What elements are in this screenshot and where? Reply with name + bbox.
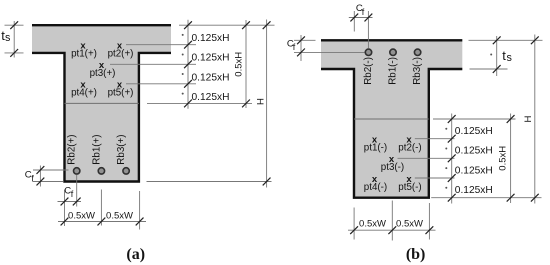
dimension line 0.125xH chain (b) [451, 114, 453, 204]
rebar Rb3(-) circle [414, 49, 420, 55]
ticks on H line (a) [263, 21, 271, 185]
segment midpoint dots (a) [182, 34, 184, 36]
dimension C_f left (a) [39, 166, 41, 187]
svg-text:H: H [255, 98, 266, 105]
svg-text:pt1(+): pt1(+) [71, 48, 97, 59]
dimension t_s (b) [496, 36, 498, 76]
bottom extension line (a) [147, 181, 272, 183]
svg-text:Rb1(-): Rb1(-) [388, 57, 399, 85]
top extension line (a) [179, 24, 275, 26]
dimension C_f top (b) [354, 11, 368, 48]
ticks on 0.5xH line (b) [507, 115, 515, 202]
dimension line 0.5xH (b) [510, 114, 512, 204]
svg-text:pt4(+): pt4(+) [71, 88, 97, 99]
svg-text:0.5xH: 0.5xH [498, 146, 509, 171]
mid level extension line (b) [433, 118, 516, 120]
svg-text:0.125xH: 0.125xH [455, 185, 493, 196]
dimension line H (b) [534, 35, 536, 204]
rebar Rb1(-) circle [390, 49, 396, 55]
svg-text:Rb1(+): Rb1(+) [91, 134, 102, 164]
beam (a) outline: flange underside + web sides + bottom [32, 53, 171, 182]
svg-text:0.125xH: 0.125xH [455, 126, 493, 137]
svg-text:pt4(-): pt4(-) [364, 182, 387, 193]
svg-text:Rb2(-): Rb2(-) [363, 57, 374, 85]
T-beam cross-section (a) gray fill [32, 24, 171, 183]
mid-height level line across web (a) [65, 102, 139, 104]
leader line pt2(-) [415, 138, 455, 140]
svg-text:(a): (a) [126, 246, 145, 263]
svg-text:pt5(+): pt5(+) [108, 88, 134, 99]
ticks on 0.5xH line (a) [242, 21, 250, 107]
svg-text:0.125xH: 0.125xH [192, 92, 230, 103]
dimension t_s (a): line, extensions, ticks [13, 21, 15, 58]
dimension 0.5xW (a) [101, 190, 139, 230]
dimension line 0.5xH (a) [245, 20, 247, 108]
svg-text:H: H [523, 115, 534, 122]
svg-text:s: s [507, 52, 513, 64]
svg-text:pt2(-): pt2(-) [398, 142, 421, 153]
svg-text:0.125xH: 0.125xH [455, 165, 493, 176]
leader line pt3 [110, 63, 196, 65]
leader line pt5(-) [415, 177, 455, 179]
dimension line H (a) [266, 20, 268, 188]
T-beam cross-section (b) gray fill [321, 39, 462, 199]
leader line pt3(-) [398, 157, 455, 159]
svg-text:0.125xH: 0.125xH [192, 33, 230, 44]
dimension line 0.125xH chain (a) [187, 20, 189, 109]
svg-text:0.5xW: 0.5xW [106, 210, 133, 221]
svg-text:pt5(-): pt5(-) [398, 182, 421, 193]
svg-text:0.5xW: 0.5xW [359, 219, 386, 230]
svg-text:pt3(+): pt3(+) [90, 68, 116, 79]
beam (b) outline: flange underside + web sides + bottom [321, 69, 462, 198]
svg-text:pt1(-): pt1(-) [364, 142, 387, 153]
svg-text:0.5xW: 0.5xW [396, 219, 423, 230]
svg-text:0.125xH: 0.125xH [192, 53, 230, 64]
svg-text:0.5xW: 0.5xW [68, 210, 95, 221]
ticks on 0.125xH chain (b) [448, 115, 456, 202]
svg-text:s: s [5, 32, 11, 44]
dimension C_f bottom (a) [65, 175, 77, 226]
svg-text:0.125xH: 0.125xH [192, 72, 230, 83]
svg-text:Rb3(-): Rb3(-) [412, 57, 423, 85]
svg-text:0.125xH: 0.125xH [455, 146, 493, 157]
dimension C_f left (b) [300, 35, 302, 61]
svg-text:Rb3(+): Rb3(+) [116, 134, 127, 164]
rebar Rb3(+) circle [123, 168, 129, 174]
leader line pt5 [126, 83, 196, 85]
svg-text:Rb2(+): Rb2(+) [67, 134, 78, 164]
ticks on H line (b) [531, 36, 539, 201]
svg-text:0.5xH: 0.5xH [234, 52, 245, 77]
beam (a) top edge [32, 24, 171, 26]
dimension 0.5xW (b) [354, 201, 429, 241]
segment midpoint dots (b) [445, 128, 447, 130]
leader line pt2 [126, 44, 196, 46]
ticks on 0.125xH chain (a) [184, 21, 192, 107]
svg-text:pt2(+): pt2(+) [108, 48, 134, 59]
svg-text:pt3(-): pt3(-) [381, 162, 404, 173]
beam (b) top edge [321, 39, 462, 41]
mid level extension line (a) [147, 102, 252, 104]
rebar Rb1(+) circle [98, 168, 104, 174]
top extension line (b) [469, 39, 543, 41]
mid-height level line across web (b) [354, 118, 429, 120]
rebar Rb2(+) circle [74, 168, 80, 174]
svg-text:(b): (b) [406, 246, 426, 263]
bottom extension line (b) [431, 197, 541, 199]
rebar Rb2(-) circle [365, 49, 371, 55]
